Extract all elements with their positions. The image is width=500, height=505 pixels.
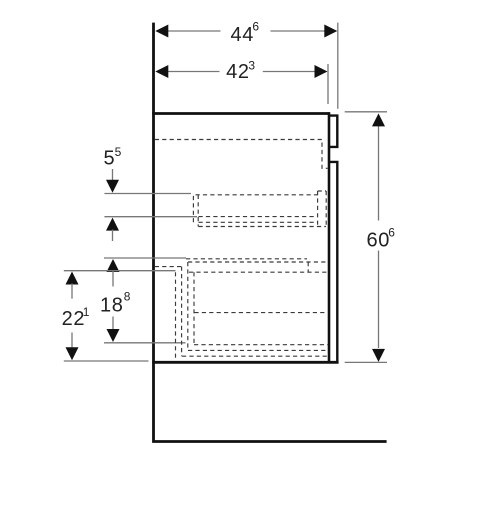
cabinet top edge <box>152 112 328 115</box>
svg-text:6: 6 <box>252 20 259 34</box>
svg-text:8: 8 <box>124 290 131 304</box>
svg-text:5: 5 <box>104 148 116 170</box>
extension line 42.3 right <box>327 64 329 104</box>
wall <box>154 23 387 442</box>
hidden lines: lower drawer assembly <box>155 259 328 361</box>
svg-text:5: 5 <box>115 145 122 159</box>
hidden lines: washbasin recess <box>155 140 328 169</box>
dimension 44.6 <box>168 30 326 32</box>
top drawer front <box>330 116 337 147</box>
svg-text:1: 1 <box>83 305 90 319</box>
svg-text:18: 18 <box>100 295 123 317</box>
bottom drawer front <box>330 162 337 361</box>
svg-text:60: 60 <box>367 229 390 251</box>
dimension 18.8 left <box>107 259 120 272</box>
leader 18.8 top <box>104 257 186 259</box>
leader 5.5 bottom <box>104 216 197 218</box>
dimension 22.1 left <box>66 272 79 285</box>
leader 22.1 bottom <box>64 360 149 362</box>
svg-text:6: 6 <box>388 225 395 239</box>
leader 18.8 bottom <box>104 342 186 344</box>
leader 5.5 top <box>104 193 191 195</box>
leader 22.1 top <box>64 270 176 272</box>
hidden lines: upper drawer box <box>193 191 326 227</box>
svg-text:44: 44 <box>231 24 254 46</box>
svg-text:42: 42 <box>226 61 249 83</box>
svg-text:3: 3 <box>248 58 255 72</box>
extension line 44.6 right <box>337 23 339 109</box>
dimension 60.6 right <box>345 111 387 113</box>
cabinet right (front) edge <box>328 112 331 362</box>
dimension 42.3 <box>168 71 316 73</box>
cabinet bottom edge <box>152 361 338 364</box>
svg-text:22: 22 <box>62 308 85 330</box>
